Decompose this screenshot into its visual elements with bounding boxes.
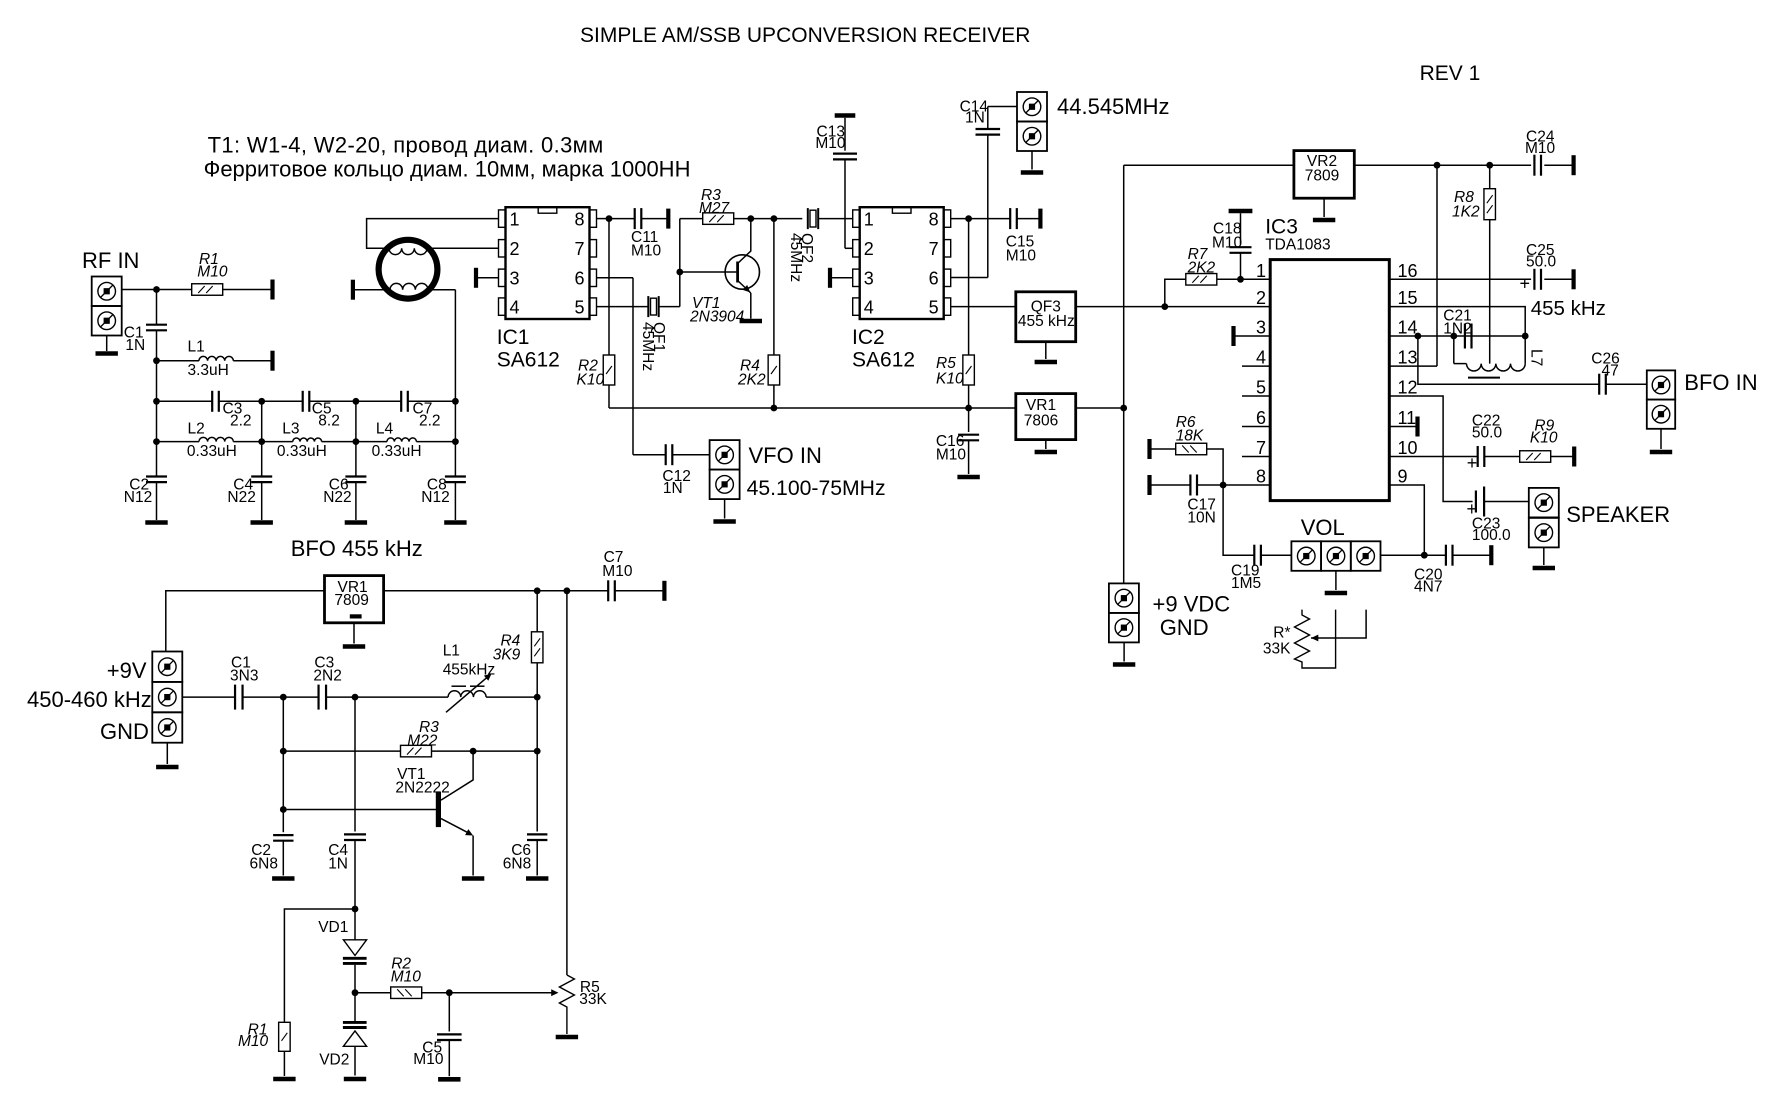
svg-text:M10: M10 [413,1051,444,1068]
svg-text:7: 7 [574,239,584,259]
svg-text:L1: L1 [188,339,205,356]
svg-text:6: 6 [929,269,939,289]
svg-text:1K2: 1K2 [1452,204,1480,221]
svg-text:0.33uH: 0.33uH [277,443,327,460]
svg-text:2.2: 2.2 [419,413,441,430]
svg-text:10: 10 [1398,438,1418,458]
svg-text:6: 6 [1256,408,1266,428]
svg-text:GND: GND [1160,615,1209,640]
svg-text:M10: M10 [197,263,228,280]
svg-text:3: 3 [510,269,520,289]
svg-text:K10: K10 [1530,430,1558,447]
svg-text:K10: K10 [936,371,964,388]
svg-text:6N8: 6N8 [250,856,278,873]
svg-text:VR1: VR1 [1026,397,1056,414]
svg-text:5: 5 [929,297,939,317]
svg-text:2: 2 [510,239,520,259]
svg-text:2N2: 2N2 [313,668,341,685]
svg-text:Т1: W1-4, W2-20, провод диам.: Т1: W1-4, W2-20, провод диам. 0.3мм [208,133,604,158]
svg-text:1: 1 [510,209,520,229]
svg-text:+: + [1520,274,1531,294]
svg-text:7: 7 [1256,438,1266,458]
svg-text:11: 11 [1398,408,1417,428]
svg-text:1N: 1N [965,110,985,127]
svg-text:L7: L7 [1528,349,1545,366]
svg-text:45.100-75MHz: 45.100-75MHz [747,477,886,500]
svg-text:+9 VDC: +9 VDC [1153,592,1231,617]
svg-text:VFO IN: VFO IN [749,443,822,468]
svg-text:M10: M10 [631,243,662,260]
svg-text:N22: N22 [227,489,255,506]
svg-text:13: 13 [1398,348,1418,368]
svg-text:1: 1 [864,209,874,229]
svg-text:L4: L4 [376,420,394,437]
svg-text:10N: 10N [1187,510,1215,527]
svg-text:TDA1083: TDA1083 [1265,237,1330,254]
svg-text:18K: 18K [1176,428,1204,445]
svg-text:3K9: 3K9 [493,647,521,664]
svg-text:2N3904: 2N3904 [689,309,745,326]
svg-text:M10: M10 [1525,140,1556,157]
svg-text:M10: M10 [1212,235,1243,252]
svg-text:M10: M10 [815,135,846,152]
svg-text:VD2: VD2 [319,1052,349,1069]
svg-text:455 kHz: 455 kHz [1018,313,1075,330]
svg-text:100.0: 100.0 [1472,527,1511,544]
svg-text:VOL: VOL [1301,515,1345,540]
svg-text:450-460 kHz: 450-460 kHz [27,687,152,712]
svg-text:L3: L3 [282,420,299,437]
svg-text:1N: 1N [663,480,683,497]
svg-text:K10: K10 [577,372,605,389]
svg-text:R*: R* [1273,625,1290,642]
svg-text:47: 47 [1602,363,1619,380]
svg-text:0.33uH: 0.33uH [187,443,237,460]
svg-text:5: 5 [1256,378,1266,398]
svg-text:REV 1: REV 1 [1420,62,1481,85]
svg-text:3: 3 [1256,318,1266,338]
svg-text:M10: M10 [602,563,633,580]
svg-text:45MHz: 45MHz [787,233,804,282]
svg-text:455kHz: 455kHz [443,662,496,679]
svg-text:2: 2 [1256,288,1266,308]
svg-text:IC2: IC2 [852,326,885,349]
svg-text:Ферритовое кольцо диам. 10мм,: Ферритовое кольцо диам. 10мм, марка 1000… [204,157,691,182]
svg-text:SPEAKER: SPEAKER [1566,502,1670,527]
svg-text:4: 4 [864,297,874,317]
svg-text:8.2: 8.2 [318,413,340,430]
svg-text:SIMPLE AM/SSB UPCONVERSION REC: SIMPLE AM/SSB UPCONVERSION RECEIVER [580,24,1030,47]
svg-text:33K: 33K [1263,641,1291,658]
svg-text:N22: N22 [323,489,351,506]
svg-text:RF IN: RF IN [82,248,139,273]
svg-text:8: 8 [574,209,584,229]
svg-text:1N: 1N [328,856,348,873]
svg-text:7809: 7809 [334,592,368,609]
svg-text:12: 12 [1398,378,1418,398]
svg-text:L2: L2 [188,420,205,437]
svg-text:BFO 455 kHz: BFO 455 kHz [291,536,423,561]
svg-text:GND: GND [100,719,149,744]
svg-text:45MHz: 45MHz [639,322,656,371]
svg-text:9: 9 [1398,467,1408,487]
svg-text:SA612: SA612 [852,349,915,372]
svg-text:1N: 1N [125,337,145,354]
svg-text:M27: M27 [699,200,731,217]
svg-text:M10: M10 [1006,248,1037,265]
svg-text:3.3uH: 3.3uH [188,362,229,379]
svg-text:M10: M10 [936,447,967,464]
svg-text:0.33uH: 0.33uH [372,443,422,460]
svg-text:IC3: IC3 [1265,216,1298,239]
svg-text:2.2: 2.2 [230,413,252,430]
svg-text:7806: 7806 [1024,413,1058,430]
svg-text:6N8: 6N8 [503,856,531,873]
svg-text:L1: L1 [443,643,460,660]
svg-text:2K2: 2K2 [737,372,766,389]
svg-text:7: 7 [929,239,939,259]
svg-text:7809: 7809 [1305,168,1339,185]
svg-text:4: 4 [1256,348,1266,368]
svg-text:8: 8 [929,209,939,229]
svg-text:3: 3 [864,269,874,289]
svg-text:+9V: +9V [107,658,147,683]
svg-text:4N7: 4N7 [1414,579,1442,596]
svg-text:8: 8 [1256,467,1266,487]
svg-text:R5: R5 [936,355,956,372]
svg-text:BFO IN: BFO IN [1684,370,1757,395]
svg-text:15: 15 [1398,288,1418,308]
svg-text:IC1: IC1 [497,326,530,349]
svg-text:M10: M10 [238,1033,269,1050]
svg-text:M10: M10 [391,969,422,986]
svg-text:2K2: 2K2 [1187,260,1216,277]
svg-text:1M5: 1M5 [1231,575,1261,592]
svg-text:2N2222: 2N2222 [395,780,449,797]
svg-text:2: 2 [864,239,874,259]
svg-text:6: 6 [574,269,584,289]
svg-text:N12: N12 [124,489,152,506]
svg-text:5: 5 [574,297,584,317]
svg-text:33K: 33K [579,991,607,1008]
svg-text:3N3: 3N3 [230,668,258,685]
svg-text:16: 16 [1398,261,1418,281]
svg-text:50.0: 50.0 [1526,254,1557,271]
svg-text:1: 1 [1256,261,1266,281]
svg-text:14: 14 [1398,318,1418,338]
svg-text:N12: N12 [421,489,449,506]
svg-text:1N2: 1N2 [1443,321,1471,338]
svg-text:455 kHz: 455 kHz [1531,297,1606,320]
svg-text:44.545MHz: 44.545MHz [1057,94,1170,119]
svg-text:50.0: 50.0 [1472,425,1503,442]
svg-text:+: + [1467,453,1478,473]
svg-text:VD1: VD1 [318,919,348,936]
svg-text:4: 4 [510,297,520,317]
svg-text:M22: M22 [407,732,438,749]
svg-text:SA612: SA612 [497,349,560,372]
